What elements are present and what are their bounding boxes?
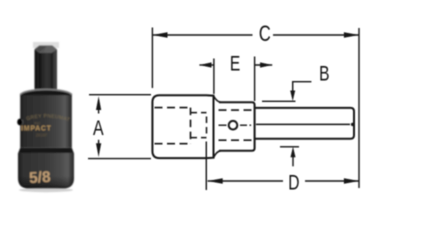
svg-text:B: B [319, 61, 329, 85]
curved brand text GREY PNEUMATIC [23, 118, 69, 122]
dimension E right extension line [254, 57, 256, 102]
dimension C right arrowhead [344, 32, 359, 37]
socket upper cylinder [20, 95, 72, 148]
hex bit top face [35, 46, 57, 53]
body-to-collar top chamfer [214, 96, 222, 103]
svg-text:E: E [230, 51, 240, 75]
dimension E right arrow [255, 64, 273, 66]
dimension D line [208, 180, 283, 182]
body-to-collar bottom chamfer [214, 151, 222, 158]
hex bit body [35, 50, 58, 90]
shared right extension line for C and D [358, 28, 360, 188]
socket lower band [18, 153, 74, 189]
svg-text:IMPACT: IMPACT [21, 126, 52, 133]
dimension A top extension line [89, 94, 151, 96]
hex bit shaft outline [255, 108, 354, 139]
dashed bit silhouette inside collar (top) [219, 109, 254, 111]
svg-text:A: A [93, 117, 104, 141]
pin hole circle [229, 121, 238, 130]
dimension D left arrowhead [208, 178, 223, 183]
dimension C left arrowhead [152, 32, 167, 37]
dimension A bottom extension line [88, 158, 151, 160]
hex bit shadow halo [33, 42, 59, 48]
collar (bit holder) outline [219, 102, 255, 150]
svg-text:C: C [259, 22, 271, 47]
dimension B leader elbow [293, 82, 312, 92]
shaft tip dot [351, 123, 354, 126]
dashed bit inner end [206, 117, 208, 136]
dashed bit silhouette inside collar (bottom) [219, 139, 254, 141]
dimension D right arrowhead [344, 178, 359, 183]
dimension E left arrow [199, 64, 214, 66]
dimension labels [93, 22, 329, 194]
dimension B upper witness bar [262, 100, 296, 102]
centerline dash-dot through pin [219, 124, 252, 126]
dimension A up arrow [96, 96, 101, 110]
dashed pilot hole [191, 112, 207, 114]
svg-text:5/8: 5/8 [29, 169, 52, 187]
dimension A down arrow [96, 143, 101, 157]
dimension C left extension line [151, 28, 153, 89]
lower band bottom shading [18, 176, 74, 189]
dimension D left extension line [205, 142, 207, 191]
dimension E left extension line [213, 59, 215, 95]
svg-text:D: D [288, 170, 299, 194]
socket body outline [152, 95, 213, 158]
dimension B up arrow below shaft [291, 147, 296, 158]
dimension B down arrow [290, 91, 295, 102]
dimension C line [152, 34, 252, 36]
hex bit facet edges [39, 53, 41, 89]
shaft hex edge mid line [256, 123, 350, 125]
groove / flare between cylinder and lower band [18, 148, 74, 154]
socket top rim ellipse [20, 89, 72, 101]
floor shadow [19, 188, 73, 192]
svg-text:2916F: 2916F [36, 133, 48, 138]
dashed square drive opening [155, 107, 191, 109]
dimension B lower witness bar [280, 146, 299, 148]
pin hole [17, 119, 22, 126]
